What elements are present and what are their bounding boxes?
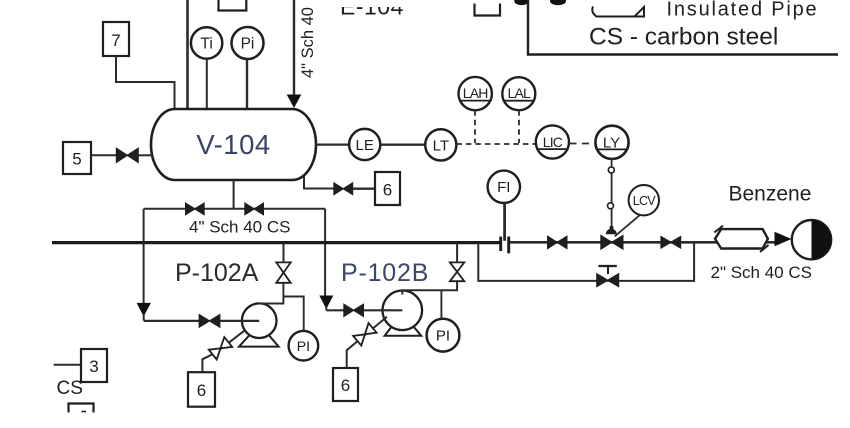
svg-text:7: 7 bbox=[111, 31, 120, 50]
pump P-102B bbox=[383, 291, 423, 331]
valve to tag 6 bbox=[334, 183, 353, 195]
check/vertical valve pump A discharge bbox=[276, 262, 290, 282]
tag box 3 bbox=[81, 349, 107, 382]
wire: top vapor pipe into vessel bbox=[186, 0, 189, 108]
svg-text:6: 6 bbox=[341, 376, 350, 395]
wire manifold right drop to pump B bbox=[324, 209, 326, 296]
svg-text:4" Sch 40: 4" Sch 40 bbox=[299, 7, 317, 78]
wire pump B discharge bbox=[402, 281, 457, 295]
svg-text:LCV: LCV bbox=[633, 194, 657, 208]
valve pump B suction bbox=[344, 304, 364, 316]
tag box 6 (pump A drain) bbox=[188, 372, 215, 407]
wire pump B suction bbox=[326, 309, 344, 311]
wire LE to LT bbox=[380, 143, 425, 145]
svg-text:LAH: LAH bbox=[463, 85, 488, 101]
angled valve pump B drain bbox=[353, 323, 376, 346]
wire into tag box 3 bbox=[54, 364, 81, 366]
bypass wire bbox=[478, 242, 694, 281]
wire pump B drain bbox=[347, 317, 387, 368]
svg-text:6: 6 bbox=[383, 181, 392, 200]
svg-text:CS - carbon steel: CS - carbon steel bbox=[589, 24, 778, 51]
wire vessel drain to valve bbox=[304, 175, 335, 189]
pump P-102A base bbox=[239, 334, 279, 347]
legend box border bbox=[528, 0, 838, 55]
wire Pi to vessel bbox=[246, 59, 248, 108]
svg-text:PI: PI bbox=[436, 328, 450, 345]
instrument tag LCV bbox=[629, 185, 659, 215]
instrument LY bbox=[595, 126, 628, 159]
instrument FI bbox=[488, 171, 520, 203]
signal (dashed) LAL drop bbox=[518, 110, 520, 143]
svg-text:5: 5 bbox=[72, 150, 81, 169]
cropped bold title descenders bbox=[514, 0, 528, 5]
main product pipe bbox=[52, 241, 500, 244]
flow arrow into pump A suction bbox=[137, 303, 151, 317]
valve on main pipe (after orifice) bbox=[548, 236, 567, 248]
instrument PI (pump A) bbox=[289, 331, 319, 361]
signal (dashed) LAH drop bbox=[474, 110, 476, 143]
svg-text:LIC: LIC bbox=[543, 134, 563, 150]
svg-text:FI: FI bbox=[497, 179, 510, 196]
wire vessel to LE bbox=[316, 144, 349, 146]
orifice flange taps bbox=[499, 237, 502, 251]
valve at vessel inlet bbox=[116, 148, 138, 162]
pump P-102B base bbox=[385, 324, 422, 336]
svg-text:Ti: Ti bbox=[200, 36, 212, 53]
svg-text:V-104: V-104 bbox=[196, 129, 270, 160]
wire manifold left drop to pump A bbox=[143, 209, 145, 303]
signal (dashed) LIC to LY bbox=[570, 143, 596, 145]
signal (dashed) LT to LIC bbox=[456, 143, 535, 145]
flow arrow to benzene connector bbox=[775, 232, 792, 246]
manifold header wire bbox=[144, 208, 326, 210]
wire valve A to main pipe bbox=[283, 243, 285, 263]
svg-text:LE: LE bbox=[356, 137, 374, 154]
svg-text:LAL: LAL bbox=[508, 85, 532, 101]
svg-text:LY: LY bbox=[603, 134, 620, 151]
svg-text:CS: CS bbox=[57, 378, 83, 399]
svg-text:2" Sch 40 CS: 2" Sch 40 CS bbox=[711, 263, 812, 282]
valve on main pipe (before insulated section) bbox=[661, 237, 681, 249]
bypass globe valve with T-handle bbox=[597, 274, 619, 287]
flow arrow into pump B suction bbox=[319, 296, 333, 310]
pump P-102A bbox=[242, 303, 277, 338]
svg-text:6: 6 bbox=[197, 381, 206, 400]
wire box 5 to valve bbox=[91, 154, 117, 156]
insulated pipe section bbox=[715, 229, 768, 248]
off-page connector box (top, cropped) bbox=[475, 4, 501, 16]
instrument LAL bbox=[502, 77, 535, 110]
wire pump A discharge bbox=[259, 284, 283, 304]
check/vertical valve pump B discharge bbox=[450, 262, 464, 281]
control valve LCV bbox=[601, 236, 623, 250]
instrument Ti bbox=[191, 27, 222, 58]
tag box 7 bbox=[103, 22, 129, 56]
off-page connector box (bottom left, cropped) bbox=[69, 404, 94, 413]
svg-text:4" Sch 40 CS: 4" Sch 40 CS bbox=[189, 218, 290, 237]
off-page connector (Benzene) bbox=[792, 220, 831, 259]
wire valve B to main pipe bbox=[456, 243, 458, 263]
vessel V-104 bbox=[151, 109, 316, 180]
valve pump A suction bbox=[199, 315, 220, 328]
wire valve to vessel bbox=[138, 154, 151, 156]
instrument LIC bbox=[536, 125, 569, 158]
instrument PI (pump B) bbox=[427, 319, 460, 352]
wire box 7 to vessel bbox=[116, 56, 175, 108]
tag box 6 (pump B drain) bbox=[333, 368, 358, 401]
wire pump A drain bbox=[202, 331, 244, 373]
svg-text:Insulated Pipe: Insulated Pipe bbox=[667, 0, 819, 21]
svg-text:PI: PI bbox=[297, 338, 310, 354]
wire pump A suction bbox=[144, 320, 200, 322]
wire FI to orifice bbox=[503, 203, 506, 241]
manifold valve left bbox=[186, 203, 205, 215]
feed pipe with flow arrow into vessel bbox=[293, 0, 295, 95]
wire Ti to vessel bbox=[206, 59, 208, 108]
wire vessel bottom outlet bbox=[233, 180, 235, 209]
svg-text:3: 3 bbox=[89, 357, 98, 376]
wire valve to box 6 bbox=[353, 187, 375, 189]
instrument Pi bbox=[232, 27, 264, 59]
svg-text:P-102B: P-102B bbox=[341, 259, 429, 287]
svg-text:Pi: Pi bbox=[241, 36, 255, 53]
instrument LE bbox=[349, 129, 380, 160]
off-page connector box (top center, cropped) bbox=[219, 0, 247, 11]
angled valve pump A drain bbox=[209, 337, 232, 359]
svg-text:P-102A: P-102A bbox=[175, 259, 259, 287]
tag box 5 bbox=[63, 142, 91, 174]
legend insulated pipe symbol (cropped) bbox=[592, 7, 644, 17]
tag box 6 (vessel drain) bbox=[375, 172, 400, 205]
svg-text:Benzene: Benzene bbox=[729, 182, 812, 205]
manifold valve right bbox=[245, 203, 264, 215]
instrument LT bbox=[425, 129, 456, 160]
svg-text:LT: LT bbox=[433, 137, 449, 154]
instrument LAH bbox=[459, 77, 492, 110]
signal line LY to control valve bbox=[611, 159, 613, 227]
